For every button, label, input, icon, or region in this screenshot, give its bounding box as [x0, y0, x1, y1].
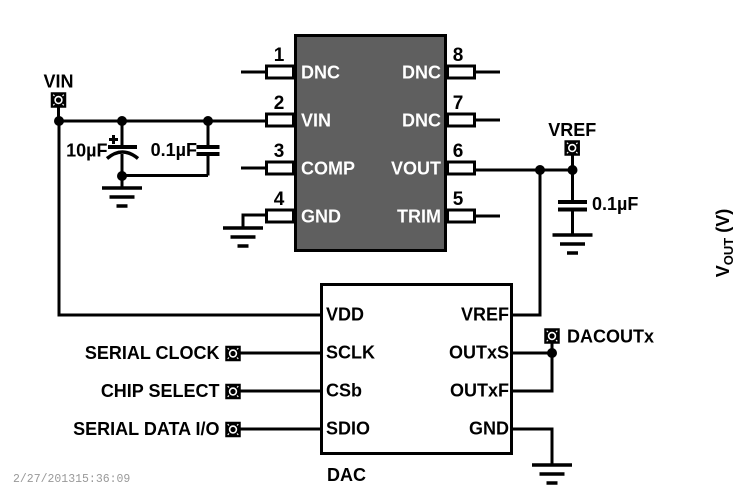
svg-text:VIN: VIN	[301, 111, 331, 131]
svg-text:DNC: DNC	[301, 63, 340, 83]
svg-text:CHIP SELECT: CHIP SELECT	[101, 381, 220, 401]
svg-text:CSb: CSb	[326, 381, 362, 401]
svg-text:SDIO: SDIO	[326, 419, 370, 439]
svg-text:0.1µF: 0.1µF	[151, 140, 197, 160]
svg-text:DNC: DNC	[402, 63, 441, 83]
svg-text:10µF: 10µF	[66, 141, 107, 161]
svg-text:VDD: VDD	[326, 305, 364, 325]
svg-text:5: 5	[453, 189, 464, 210]
svg-text:SCLK: SCLK	[326, 343, 375, 363]
svg-text:1: 1	[274, 45, 285, 66]
svg-text:OUTxF: OUTxF	[450, 381, 509, 401]
svg-text:DAC: DAC	[327, 465, 366, 485]
svg-text:VREF: VREF	[548, 120, 596, 140]
svg-text:DACOUTx: DACOUTx	[567, 327, 654, 347]
svg-text:7: 7	[453, 93, 464, 114]
svg-text:4: 4	[274, 189, 285, 210]
svg-text:2/27/201315:36:09: 2/27/201315:36:09	[13, 473, 130, 486]
svg-text:3: 3	[274, 141, 285, 162]
svg-text:OUTxS: OUTxS	[449, 343, 509, 363]
svg-text:SERIAL CLOCK: SERIAL CLOCK	[85, 343, 220, 363]
svg-text:6: 6	[453, 141, 464, 162]
svg-text:DNC: DNC	[402, 111, 441, 131]
svg-text:VOUT: VOUT	[391, 159, 441, 179]
svg-text:VREF: VREF	[461, 305, 509, 325]
svg-text:VOUT (V): VOUT (V)	[713, 209, 736, 277]
svg-text:GND: GND	[301, 207, 341, 227]
svg-text:VIN: VIN	[43, 72, 73, 92]
svg-text:0.1µF: 0.1µF	[592, 194, 638, 214]
svg-text:2: 2	[274, 93, 285, 114]
svg-text:COMP: COMP	[301, 159, 355, 179]
svg-text:SERIAL DATA I/O: SERIAL DATA I/O	[73, 419, 219, 439]
svg-text:8: 8	[453, 45, 464, 66]
svg-text:GND: GND	[469, 419, 509, 439]
svg-text:TRIM: TRIM	[397, 207, 441, 227]
